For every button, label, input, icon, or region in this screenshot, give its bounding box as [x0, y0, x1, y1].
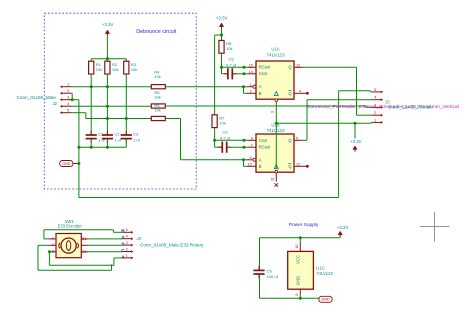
svg-text:10k: 10k — [226, 46, 232, 51]
svg-text:5: 5 — [67, 109, 69, 113]
svg-text:Q: Q — [288, 65, 291, 70]
svg-text:Q: Q — [288, 138, 291, 143]
svg-text:2: 2 — [126, 247, 128, 251]
svg-text:+3.3V: +3.3V — [102, 22, 114, 27]
svg-text:2: 2 — [250, 89, 252, 93]
svg-text:4: 4 — [67, 102, 69, 106]
svg-text:14: 14 — [249, 70, 253, 74]
svg-text:C2: C2 — [114, 131, 120, 136]
svg-text:74LV123: 74LV123 — [266, 128, 284, 133]
svg-text:C3: C3 — [133, 131, 139, 136]
svg-text:2: 2 — [67, 89, 69, 93]
svg-text:9: 9 — [250, 156, 252, 160]
svg-text:B: B — [259, 91, 262, 96]
svg-text:10k: 10k — [96, 67, 102, 72]
svg-text:C4: C4 — [223, 130, 229, 135]
svg-text:1: 1 — [374, 118, 376, 122]
svg-text:10k: 10k — [154, 95, 160, 100]
svg-text:C5: C5 — [229, 57, 235, 62]
svg-text:RCext: RCext — [259, 65, 271, 70]
svg-text:Conn_01x05_Male: Conn_01x05_Male — [17, 95, 57, 100]
svg-text:5: 5 — [296, 136, 298, 140]
svg-text:13: 13 — [296, 63, 300, 67]
svg-text:+3.3V: +3.3V — [337, 225, 349, 230]
svg-text:10k: 10k — [154, 74, 160, 79]
svg-text:4: 4 — [126, 235, 128, 239]
svg-text:11: 11 — [271, 177, 275, 181]
svg-text:3: 3 — [126, 241, 128, 245]
svg-text:4: 4 — [374, 96, 376, 100]
svg-text:3: 3 — [67, 96, 69, 100]
svg-text:Cext: Cext — [259, 138, 268, 143]
svg-text:4.7 uf: 4.7 uf — [226, 62, 237, 67]
svg-text:A: A — [121, 254, 125, 259]
svg-text:RCext: RCext — [259, 145, 271, 150]
svg-text:+3.3V: +3.3V — [350, 139, 362, 144]
svg-text:5: 5 — [374, 88, 376, 92]
svg-text:Connector_PinHeader_2.54mm_Pin: Connector_PinHeader_2.54mm_PinHeader_1x0… — [307, 104, 459, 110]
svg-text:10k: 10k — [112, 67, 118, 72]
svg-text:Q: Q — [288, 164, 291, 169]
svg-text:Q: Q — [288, 91, 291, 96]
svg-text:1: 1 — [126, 254, 128, 258]
svg-text:100 uf: 100 uf — [267, 274, 279, 279]
svg-text:10k: 10k — [131, 67, 137, 72]
svg-text:5: 5 — [126, 228, 128, 232]
svg-text:Conn_01x05_Female: Conn_01x05_Female — [388, 104, 433, 109]
svg-text:6: 6 — [251, 136, 253, 140]
svg-text:74LV123: 74LV123 — [316, 271, 333, 276]
svg-text:GND: GND — [295, 276, 300, 285]
svg-text:C6: C6 — [267, 268, 273, 273]
svg-text:U1A: U1A — [271, 47, 279, 52]
svg-text:Conn_01x05_Male E33 Rotary: Conn_01x05_Male E33 Rotary — [140, 242, 204, 247]
svg-text:+3.3V: +3.3V — [216, 16, 228, 21]
svg-text:1: 1 — [67, 83, 69, 87]
svg-text:3: 3 — [271, 111, 275, 113]
svg-text:10k: 10k — [154, 108, 160, 113]
svg-text:J2: J2 — [53, 101, 58, 106]
svg-text:74LV123: 74LV123 — [266, 53, 284, 58]
svg-text:B: B — [259, 164, 262, 169]
svg-text:B: B — [121, 229, 125, 234]
svg-text:12: 12 — [296, 162, 300, 166]
svg-text:Debounce circuit: Debounce circuit — [136, 29, 177, 35]
svg-text:Power Supply: Power Supply — [289, 222, 319, 228]
svg-text:VCC: VCC — [295, 255, 300, 264]
svg-text:2: 2 — [374, 111, 376, 115]
svg-text:4.7 uf: 4.7 uf — [220, 135, 231, 140]
svg-text:E33 Encoder: E33 Encoder — [58, 224, 83, 229]
svg-text:10: 10 — [248, 162, 252, 166]
svg-text:GND: GND — [321, 298, 330, 302]
svg-text:1 uf: 1 uf — [114, 138, 122, 143]
svg-text:1 uf: 1 uf — [133, 138, 141, 143]
svg-text:8: 8 — [295, 294, 299, 296]
svg-text:GND: GND — [62, 162, 71, 166]
svg-text:7: 7 — [251, 143, 253, 147]
svg-text:A: A — [259, 157, 262, 162]
svg-text:A: A — [259, 84, 262, 89]
svg-text:1: 1 — [250, 83, 252, 87]
svg-text:10k: 10k — [219, 121, 225, 126]
svg-text:15: 15 — [249, 63, 253, 67]
svg-text:Cext: Cext — [259, 71, 268, 76]
svg-text:4: 4 — [299, 89, 301, 93]
svg-text:J2: J2 — [137, 236, 142, 241]
svg-text:16: 16 — [295, 244, 299, 248]
svg-text:U1C: U1C — [316, 265, 324, 270]
